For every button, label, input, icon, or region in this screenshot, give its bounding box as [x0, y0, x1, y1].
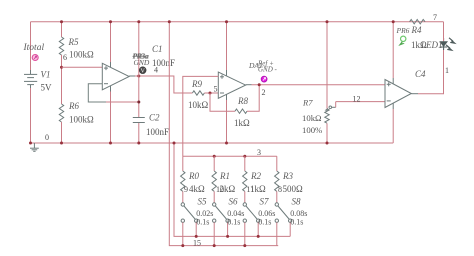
capacitor C2 branch	[138, 76, 140, 117]
wire op-amp1 V+	[110, 22, 112, 62]
wire op-amp3 V-	[392, 103, 394, 109]
junction R6 bottom on rail	[60, 142, 63, 145]
switch S7	[243, 203, 260, 223]
ground	[30, 143, 39, 151]
op-amp U2	[218, 72, 245, 98]
svg-text:R5: R5	[68, 37, 79, 47]
svg-text:5: 5	[214, 85, 218, 94]
svg-text:10kΩ: 10kΩ	[188, 100, 209, 110]
svg-text:100nF: 100nF	[146, 127, 169, 137]
wire op-amp2 V-	[226, 94, 228, 100]
capacitor C1 branch	[138, 22, 140, 76]
junction -in op2	[209, 92, 212, 95]
svg-text:C1: C1	[152, 44, 163, 54]
svg-text:S6: S6	[229, 197, 239, 207]
svg-text:6: 6	[63, 53, 67, 62]
svg-text:R8: R8	[237, 96, 248, 106]
svg-text:LED1: LED1	[420, 40, 443, 50]
resistor R9 10k	[192, 91, 204, 95]
svg-text:GND: GND	[134, 58, 150, 67]
potentiometer R7	[326, 22, 328, 109]
resistor R3 500	[276, 156, 278, 171]
LED1	[439, 38, 455, 51]
svg-text:2: 2	[262, 88, 266, 97]
wire top +5V rail	[31, 21, 444, 23]
svg-text:100%: 100%	[302, 125, 322, 135]
wire op-amp2 V+	[226, 22, 228, 70]
resistor R5 100k	[61, 22, 63, 37]
svg-text:0.1s: 0.1s	[196, 218, 209, 227]
op-amp U3	[385, 80, 411, 108]
junction battery to ground rail	[29, 142, 32, 145]
svg-text:10kΩ: 10kΩ	[302, 113, 322, 123]
svg-text:S8: S8	[292, 197, 302, 207]
svg-text:0.1s: 0.1s	[290, 218, 303, 227]
wire long vertical rail-to-15	[169, 22, 278, 246]
wire node 2	[246, 84, 252, 86]
svg-text:PR6: PR6	[396, 26, 410, 35]
wire ground 0 rail	[31, 142, 394, 144]
wire node6 to op-amp1 +in	[62, 66, 103, 68]
svg-text:15: 15	[193, 239, 201, 248]
resistor R2 1k	[244, 156, 246, 171]
wire node 12	[336, 101, 385, 103]
op-amp U1	[102, 63, 129, 90]
junction R5 top on rail	[60, 20, 63, 23]
svg-text:4kΩ: 4kΩ	[189, 184, 205, 194]
svg-text:R6: R6	[68, 101, 79, 111]
svg-text:1: 1	[445, 66, 449, 75]
wire LED top to R4	[443, 22, 445, 41]
resistor R4 1k on top rail	[410, 20, 426, 24]
svg-text:3: 3	[257, 148, 261, 157]
wire node3 riser to op2 +in	[183, 76, 219, 156]
svg-text:9: 9	[184, 185, 188, 194]
svg-text:V: V	[141, 69, 146, 75]
wire op-amp1 feedback	[88, 84, 106, 102]
svg-text:0: 0	[45, 133, 49, 142]
svg-text:R4: R4	[411, 25, 422, 35]
junction node 6	[60, 66, 63, 69]
svg-text:R2: R2	[250, 171, 261, 181]
svg-text:R3: R3	[282, 171, 293, 181]
svg-text:C4: C4	[415, 69, 426, 79]
svg-text:V1: V1	[41, 70, 51, 80]
svg-text:Itotal: Itotal	[23, 43, 45, 53]
wire op-amp3 output to LED	[411, 93, 418, 95]
svg-text:100nF: 100nF	[152, 58, 175, 68]
svg-text:5V: 5V	[41, 83, 53, 93]
svg-text:S7: S7	[260, 197, 270, 207]
svg-text:S5: S5	[198, 197, 208, 207]
svg-text:0.1s: 0.1s	[227, 218, 240, 227]
wire left battery branch vertical	[30, 22, 32, 74]
svg-text:GND -: GND -	[258, 66, 278, 74]
svg-text:0.1s: 0.1s	[258, 218, 271, 227]
svg-text:R7: R7	[302, 98, 313, 108]
battery V1 5V	[24, 70, 37, 88]
resistor R8 feedback	[210, 93, 235, 111]
svg-text:500Ω: 500Ω	[283, 184, 304, 194]
switch S6	[213, 203, 230, 223]
wire riser gnd to upper bottom rail	[174, 143, 290, 236]
resistor R6 100k	[61, 67, 63, 104]
wire node 4 output	[129, 75, 135, 77]
svg-text:C2: C2	[149, 113, 160, 123]
svg-text:12: 12	[353, 95, 361, 104]
svg-text:R1: R1	[219, 171, 230, 181]
probe V node4	[139, 67, 146, 75]
svg-text:7: 7	[433, 13, 437, 22]
subcircuit top wire node 3	[183, 155, 277, 157]
switch S5	[181, 203, 198, 223]
svg-text:100kΩ: 100kΩ	[69, 50, 94, 60]
resistor R0 4k	[182, 156, 184, 171]
wire op-amp1 V-	[110, 86, 112, 92]
svg-text:2kΩ: 2kΩ	[220, 184, 236, 194]
svg-text:100kΩ: 100kΩ	[69, 115, 94, 125]
resistor R1 2k	[213, 156, 215, 171]
svg-text:1kΩ: 1kΩ	[250, 184, 266, 194]
wire op-amp3 V+	[392, 22, 394, 78]
svg-text:R9: R9	[191, 79, 202, 89]
switch S8	[275, 203, 292, 223]
svg-text:1kΩ: 1kΩ	[234, 118, 250, 128]
svg-text:8: 8	[278, 185, 282, 194]
junction node4 / C1	[137, 75, 140, 78]
svg-text:R0: R0	[188, 171, 199, 181]
